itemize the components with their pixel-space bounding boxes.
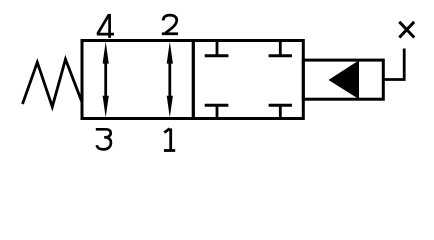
spring (return spring, left side) bbox=[23, 59, 83, 107]
pilot line to port x bbox=[383, 49, 404, 80]
pilot actuator box (right side) bbox=[303, 60, 383, 99]
port label 3 bbox=[96, 129, 111, 149]
valve body position 2 (right square, blocked ports) bbox=[193, 41, 303, 119]
flow path arrow (port 4 to 3), double headed bbox=[103, 42, 109, 118]
blocked port T, top-left of position 2 bbox=[205, 42, 229, 56]
blocked port T, bottom-right of position 2 bbox=[269, 105, 292, 117]
valve body position 1 (left square with flow arrows) bbox=[82, 41, 193, 119]
port label 1 bbox=[164, 128, 175, 150]
port label 4 bbox=[97, 14, 114, 38]
blocked port T, top-right of position 2 bbox=[269, 42, 292, 56]
pilot pressure triangle (filled, pointing left) bbox=[329, 60, 360, 99]
blocked port T, bottom-left of position 2 bbox=[205, 105, 229, 117]
port label 2 bbox=[162, 15, 178, 34]
port label x bbox=[399, 22, 414, 38]
flow path arrow (port 2 to 1), double headed bbox=[167, 42, 173, 118]
